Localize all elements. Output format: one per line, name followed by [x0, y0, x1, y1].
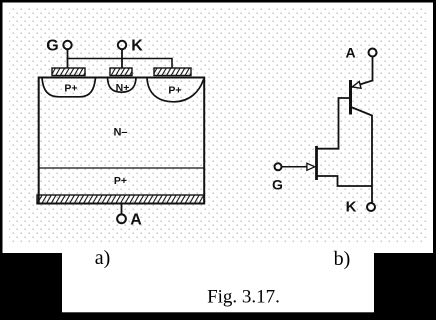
- svg-text:b): b): [334, 248, 351, 270]
- svg-text:P+: P+: [168, 85, 181, 97]
- svg-text:N–: N–: [113, 127, 127, 139]
- svg-text:a): a): [95, 247, 111, 269]
- svg-text:P+: P+: [114, 175, 127, 187]
- svg-text:K: K: [346, 199, 357, 216]
- svg-text:A: A: [130, 211, 142, 228]
- svg-text:A: A: [345, 45, 355, 61]
- svg-text:Fig. 3.17.: Fig. 3.17.: [207, 287, 280, 308]
- svg-text:P+: P+: [64, 83, 77, 95]
- svg-text:G: G: [46, 38, 58, 55]
- svg-text:N+: N+: [116, 82, 130, 94]
- svg-text:G: G: [272, 177, 283, 193]
- svg-text:K: K: [131, 38, 143, 55]
